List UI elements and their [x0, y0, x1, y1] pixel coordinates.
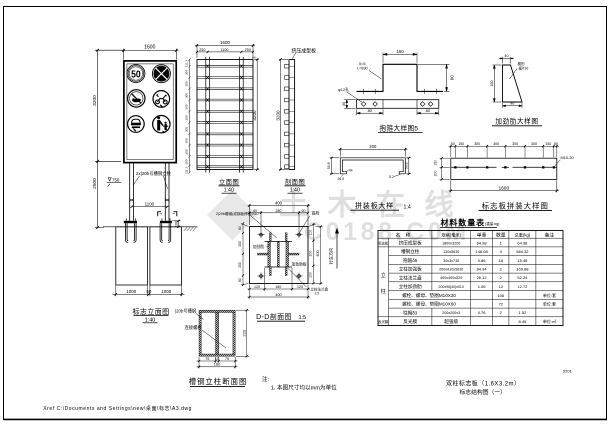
dimension 200 (profile top) [338, 148, 407, 157]
svg-text:200: 200 [238, 262, 242, 268]
svg-text:120: 120 [254, 285, 260, 289]
D-D right outer dimension 400 [316, 225, 323, 284]
hoop bolt marks on posts [129, 199, 169, 202]
svg-text:400: 400 [275, 201, 283, 206]
table header texts [396, 231, 555, 238]
left dimension 150/200 (board) [440, 157, 450, 180]
svg-text:300: 300 [185, 149, 189, 154]
svg-text:2: 2 [500, 310, 503, 315]
sign: speed limit 50 [127, 65, 145, 83]
svg-text:柱: 柱 [381, 288, 386, 295]
svg-text:抱箍大样图5: 抱箍大样图5 [379, 124, 418, 133]
svg-text:抱箍δ5: 抱箍δ5 [403, 257, 418, 264]
svg-text:M10-30: M10-30 [561, 155, 575, 160]
svg-text:挤压成型板: 挤压成型板 [292, 47, 317, 54]
svg-text:50: 50 [146, 289, 152, 294]
svg-text:60: 60 [253, 209, 257, 213]
svg-text:立柱法兰盘: 立柱法兰盘 [399, 274, 422, 281]
sign: no horn [128, 90, 145, 107]
svg-text:160: 160 [490, 80, 494, 86]
svg-text:反光膜: 反光膜 [378, 319, 389, 324]
svg-text:50: 50 [131, 68, 141, 80]
svg-text:300: 300 [512, 142, 518, 146]
foundation blocks [116, 227, 182, 285]
sign panel board [124, 61, 176, 163]
D-D side plates [258, 253, 300, 255]
svg-text:250: 250 [245, 48, 251, 52]
svg-text:φ6: φ6 [252, 56, 256, 60]
svg-text:2: 2 [500, 267, 503, 272]
D-D leader diagonals [250, 216, 309, 288]
svg-text:40: 40 [504, 54, 508, 58]
svg-text:300: 300 [185, 81, 189, 86]
svg-text:30: 30 [342, 102, 346, 106]
svg-text:52.24: 52.24 [517, 275, 528, 280]
svg-text:8.45: 8.45 [519, 319, 528, 324]
D-D right inner dimension 100 200 100 [309, 223, 316, 284]
svg-text:超强级: 超强级 [444, 318, 458, 325]
dimension 1100 between posts [130, 206, 168, 208]
svg-text:0.86: 0.86 [478, 258, 487, 263]
svg-text:剖面图: 剖面图 [285, 177, 305, 186]
svg-text:1:5: 1:5 [315, 292, 320, 296]
svg-text:3200: 3200 [252, 110, 257, 121]
base flange plates [124, 221, 172, 223]
svg-text:200xδ10x5630: 200xδ10x5630 [439, 268, 463, 272]
svg-text:备注: 备注 [545, 231, 555, 238]
D-D flange plate square [250, 227, 309, 284]
svg-text:规格(毫米): 规格(毫米) [441, 231, 461, 238]
svg-text:10: 10 [215, 357, 219, 361]
svg-text:400: 400 [275, 293, 281, 297]
side section column [289, 60, 295, 170]
svg-text:300: 300 [531, 142, 537, 146]
svg-text:100: 100 [174, 221, 178, 227]
svg-text:72: 72 [499, 302, 504, 307]
svg-text:18: 18 [499, 258, 504, 263]
dimension 50.8 right [406, 157, 411, 175]
svg-text:300: 300 [185, 127, 189, 132]
svg-text:200: 200 [309, 251, 313, 257]
svg-text:2: 2 [500, 275, 503, 280]
svg-text:300: 300 [185, 159, 189, 164]
svg-text:200: 200 [238, 241, 242, 247]
sign: no stopping [152, 65, 170, 83]
svg-text:169.88: 169.88 [516, 267, 529, 272]
svg-text:280: 280 [276, 209, 282, 213]
svg-text:111.3: 111.3 [185, 166, 189, 173]
assembly plate C-profile [340, 158, 405, 174]
dimension 250 1100 250 [196, 51, 254, 53]
svg-text:30x3x730: 30x3x730 [443, 259, 459, 263]
svg-text:75: 75 [225, 357, 229, 361]
dimension 60 (hoop right) [418, 64, 450, 91]
svg-text:δ=5: δ=5 [359, 62, 365, 66]
svg-text:64.98: 64.98 [477, 240, 488, 245]
svg-text:1.06: 1.06 [478, 284, 487, 289]
svg-text:200x96(40)xδ10: 200x96(40)xδ10 [439, 285, 464, 289]
horizontal rails with bolts [197, 65, 253, 169]
svg-text:(重量:kg): (重量:kg) [485, 221, 499, 226]
stiffener rib plate [503, 65, 523, 102]
watermark text line 2 [304, 218, 470, 246]
table grid [378, 231, 563, 326]
svg-text:1800x3200: 1800x3200 [442, 241, 460, 245]
driving direction arrow [328, 228, 339, 269]
svg-text:D-D剖面图: D-D剖面图 [256, 312, 292, 321]
svg-text:行车方向: 行车方向 [328, 248, 335, 265]
D-D bottom dimension 120 160 120 [248, 268, 311, 299]
dimensions 80 80 (hoop bottom) [357, 109, 439, 115]
dimension 3200 (side section) [279, 58, 288, 170]
svg-text:加劲肋: 加劲肋 [253, 244, 265, 249]
svg-text:200: 200 [369, 144, 377, 149]
svg-text:50.8: 50.8 [405, 162, 409, 169]
svg-text:立柱加强板: 立柱加强板 [399, 266, 422, 273]
dimension 160 (rib left) [493, 65, 502, 102]
svg-text:2x|20b号槽钢立柱: 2x|20b号槽钢立柱 [136, 170, 172, 177]
table body rows [399, 239, 556, 325]
svg-text:3200: 3200 [92, 95, 98, 106]
svg-text:1.52: 1.52 [519, 310, 528, 315]
svg-text:单重: 单重 [477, 231, 487, 238]
elevation marker 750 [107, 178, 122, 187]
svg-text:4: 4 [500, 249, 503, 254]
svg-text:100: 100 [309, 230, 313, 236]
posts of sign (elevation) [130, 163, 169, 221]
svg-text:60: 60 [302, 209, 306, 213]
svg-text:220: 220 [241, 329, 246, 336]
dimension 40 (rib top) [499, 57, 514, 64]
svg-text:板δ10: 板δ10 [519, 65, 529, 70]
svg-text:1:4: 1:4 [404, 204, 411, 210]
svg-text:0.76: 0.76 [478, 310, 487, 315]
svg-text:80: 80 [368, 108, 373, 113]
svg-text:立柱法兰盘: 立柱法兰盘 [311, 287, 329, 292]
svg-text:300: 300 [185, 115, 189, 120]
svg-text:26.5: 26.5 [338, 177, 345, 181]
dimension 30 (plate height) [344, 100, 356, 109]
svg-text:106: 106 [497, 293, 504, 298]
svg-text:300: 300 [474, 142, 480, 146]
dimension 100 (flange above ground) [172, 220, 180, 228]
svg-text:60: 60 [238, 226, 242, 230]
svg-text:1. 本图尺寸均以mm为单位: 1. 本图尺寸均以mm为单位 [271, 384, 337, 392]
svg-text:300: 300 [185, 104, 189, 109]
svg-text:130x5630: 130x5630 [443, 250, 459, 254]
svg-text:立柱加劲肋: 立柱加劲肋 [399, 283, 422, 290]
svg-text:加劲肋板: 加劲肋板 [292, 261, 307, 266]
watermark diamond logo [207, 190, 258, 241]
svg-text:26.12: 26.12 [477, 275, 488, 280]
side section brackets [285, 64, 295, 168]
svg-text:立面图: 立面图 [219, 177, 239, 186]
svg-text:146.08: 146.08 [475, 249, 488, 254]
bottom border heavy line [4, 418, 608, 420]
svg-text:160: 160 [396, 49, 404, 54]
svg-text:双柱标志板（1.6X3.2m）: 双柱标志板（1.6X3.2m） [446, 379, 520, 387]
svg-text:5.2: 5.2 [389, 175, 394, 179]
svg-text:84.94: 84.94 [477, 267, 488, 272]
right dimension 220 (channel) [236, 309, 249, 357]
svg-text:64.98: 64.98 [517, 240, 528, 245]
svg-text:750: 750 [112, 178, 120, 183]
svg-text:立: 立 [381, 272, 386, 279]
sign: no cars [128, 116, 145, 133]
anchor bolts in foundations [126, 223, 171, 242]
board joint line [451, 166, 557, 168]
sign board assembly rectangle [451, 158, 557, 179]
svg-text:φ12孔: φ12孔 [338, 86, 349, 92]
watermark text line 1 [279, 189, 473, 222]
left dimension chain of rear elevation [188, 58, 190, 174]
svg-text:楔形: 楔形 [518, 61, 526, 66]
svg-text:1100: 1100 [145, 202, 155, 207]
svg-text:300: 300 [493, 142, 499, 146]
dimension 50.8 left [330, 157, 340, 175]
svg-text:注:: 注: [262, 375, 270, 383]
svg-text:3200: 3200 [275, 110, 280, 121]
svg-text:1:40: 1:40 [290, 188, 300, 194]
svg-text:R4: R4 [349, 169, 353, 173]
svg-text:80: 80 [426, 108, 431, 113]
svg-text:L=830: L=830 [357, 67, 368, 71]
hoop bolt ticks on profile [361, 89, 439, 94]
svg-text:1600: 1600 [220, 40, 230, 45]
diamond holes [361, 102, 433, 107]
svg-text:|20b号槽钢: |20b号槽钢 [175, 308, 196, 315]
D-D stiffener ribs (hatched) [269, 233, 287, 276]
channel column section (hatched walls) [199, 310, 235, 356]
svg-text:90: 90 [510, 102, 514, 106]
svg-text:250: 250 [199, 48, 205, 52]
svg-text:单位:套: 单位:套 [543, 301, 556, 307]
svg-text:160: 160 [214, 362, 221, 367]
svg-text:2|20b槽钢(或钢板焊接)δ10: 2|20b槽钢(或钢板焊接)δ10 [216, 211, 258, 216]
ground line [103, 226, 198, 228]
D-D section cut marks [158, 212, 177, 217]
dimension 160 (hoop top) [383, 53, 417, 63]
svg-text:槽钢立柱断面图: 槽钢立柱断面图 [189, 377, 248, 386]
rear elevation board outline [197, 60, 253, 170]
svg-text:300: 300 [185, 70, 189, 75]
svg-text:材料数量表: 材料数量表 [441, 218, 486, 228]
table row labels [378, 240, 389, 324]
svg-text:1:5: 1:5 [299, 315, 307, 321]
svg-text:1:40: 1:40 [224, 188, 234, 194]
dimension 90 (rib bottom) [503, 103, 523, 108]
dimensions 1000 50 1000 (foundations) [113, 285, 185, 296]
svg-text:加劲肋大样图: 加劲肋大样图 [495, 117, 538, 126]
svg-text:总重(kg): 总重(kg) [515, 231, 531, 237]
svg-text:1000: 1000 [161, 289, 172, 294]
top dimension chain (board) [449, 145, 559, 158]
dimension 1600 (panel width) [122, 49, 179, 60]
svg-text:300: 300 [185, 93, 189, 98]
left dimension chain 3200 / 2500 [95, 49, 123, 229]
svg-text:300: 300 [185, 138, 189, 143]
svg-text:标志板拼装大样图: 标志板拼装大样图 [482, 201, 549, 210]
svg-text:50: 50 [554, 142, 558, 146]
svg-text:柱帽δ3: 柱帽δ3 [403, 309, 418, 316]
svg-text:单位:㎡: 单位:㎡ [543, 318, 556, 324]
dimension 1600 (rear top) [195, 44, 255, 58]
D-D bottom dimension 400 [248, 296, 311, 298]
svg-text:1000: 1000 [126, 289, 137, 294]
svg-text:拼装板大样: 拼装板大样 [355, 201, 394, 210]
sign: pedestrians [153, 116, 170, 133]
svg-text:150: 150 [458, 142, 464, 146]
sign: motorcycle [153, 91, 170, 108]
svg-text:400: 400 [316, 250, 320, 256]
svg-text:槽钢立柱: 槽钢立柱 [401, 248, 420, 255]
D-D anchor bolts [258, 231, 303, 279]
hoop profile (top hat) [357, 64, 444, 91]
svg-text:5201: 5201 [563, 369, 573, 374]
svg-text:150: 150 [545, 142, 551, 146]
svg-text:数量: 数量 [496, 231, 506, 238]
svg-text:连接螺栓: 连接螺栓 [185, 324, 203, 331]
svg-text:60: 60 [238, 278, 242, 282]
svg-text:50: 50 [451, 142, 455, 146]
svg-text:Xref C:\Documents and Settings: Xref C:\Documents and Settings\new\桌面\标志… [43, 405, 192, 412]
svg-text:12: 12 [499, 284, 504, 289]
svg-text:160: 160 [275, 285, 281, 289]
D-D top dimension 60 280 60 [248, 211, 309, 231]
svg-text:1: 1 [500, 240, 503, 245]
D-D column channels (hatched walls) [265, 242, 293, 268]
svg-text:400x400xδ20: 400x400xδ20 [440, 276, 462, 280]
svg-text:1:40: 1:40 [145, 317, 156, 323]
rear elevation posts [206, 57, 243, 173]
svg-text:200x200x3: 200x200x3 [442, 311, 460, 315]
svg-text:584.32: 584.32 [516, 249, 529, 254]
svg-text:单位:套: 单位:套 [543, 292, 556, 298]
svg-text:1100: 1100 [221, 48, 229, 52]
bottom dimension 1600 (board) [449, 181, 559, 193]
svg-text:1600: 1600 [144, 45, 155, 51]
ground hatch [184, 227, 197, 231]
svg-text:反光膜: 反光膜 [403, 318, 417, 325]
svg-text:60: 60 [450, 75, 455, 80]
svg-text:标志板: 标志板 [378, 240, 389, 245]
svg-text:锚栓: 锚栓 [312, 210, 320, 216]
svg-text:150: 150 [433, 160, 437, 166]
svg-text:100: 100 [309, 272, 313, 278]
bottom dimension 160 (channel) [197, 366, 238, 368]
right dimension 3200 (rear) [254, 58, 259, 170]
svg-text:螺栓、螺母、垫圈M10X30: 螺栓、螺母、垫圈M10X30 [402, 292, 456, 299]
svg-text:120: 120 [297, 285, 303, 289]
svg-text:50.8: 50.8 [327, 162, 331, 169]
svg-text:标志结构图（一）: 标志结构图（一） [460, 388, 506, 396]
D-D top dimension 400 [248, 204, 311, 225]
svg-text:1600: 1600 [498, 186, 509, 192]
svg-text:螺栓、螺母、垫圈M10X60: 螺栓、螺母、垫圈M10X60 [402, 301, 456, 308]
svg-text:111.3: 111.3 [185, 60, 189, 67]
svg-text:15.48: 15.48 [517, 258, 528, 263]
svg-text:200: 200 [433, 170, 437, 176]
svg-text:2500: 2500 [92, 178, 98, 189]
bottom dimension 75 10 75 (channel) [197, 357, 238, 369]
svg-text:标志立面图: 标志立面图 [133, 307, 170, 316]
svg-text:75: 75 [205, 357, 209, 361]
svg-text:挤压成型板: 挤压成型板 [399, 239, 422, 246]
hoop base plate [357, 100, 439, 109]
svg-text:名 称: 名 称 [396, 231, 413, 238]
svg-text:12.72: 12.72 [517, 284, 528, 289]
assembly bolts [454, 166, 555, 168]
D-D left dimension chain [241, 222, 249, 286]
